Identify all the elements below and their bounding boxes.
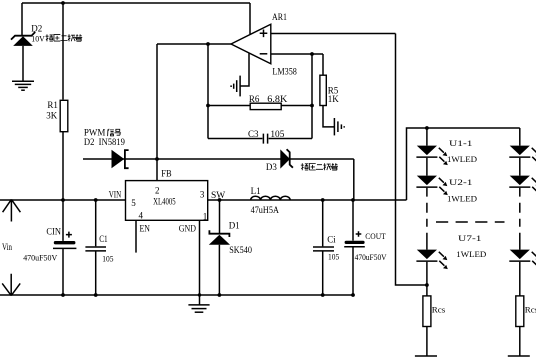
ground (tape) left of op-amp [231, 76, 240, 97]
wire top rail [22, 2, 250, 4]
svg-text:105: 105 [270, 129, 285, 139]
node D1 tap [218, 198, 222, 202]
svg-text:D1: D1 [229, 220, 240, 230]
svg-text:SK540: SK540 [229, 245, 252, 255]
svg-text:1WLED: 1WLED [456, 249, 486, 259]
node R6 right [310, 104, 314, 108]
ground (tape) right of R5 [334, 118, 344, 135]
svg-text:L1: L1 [251, 186, 261, 196]
capacitor CIN 470uF50V [23, 200, 76, 295]
wire [426, 262, 428, 296]
wire PWM/D3 row [83, 158, 354, 160]
wire current-sense line from op-amp + input [396, 34, 427, 286]
LED U2-1 [416, 176, 447, 196]
diode D2 IN5819 [112, 150, 129, 168]
svg-text:XL4005: XL4005 [153, 196, 176, 206]
svg-text:10V: 10V [31, 34, 45, 44]
node sense/Rcs junction [425, 283, 429, 287]
label 10V stabilivolt fake hanzi [46, 34, 83, 41]
node left string tap [425, 126, 429, 130]
node output/R6 junction [206, 42, 210, 46]
svg-text:6.8K: 6.8K [267, 94, 288, 104]
wire R6/C3 right vertical [311, 54, 313, 139]
capacitor Ci 105 [313, 200, 339, 295]
node Ci bottom [321, 293, 325, 297]
svg-text:U1-1: U1-1 [449, 138, 473, 148]
zener diode D3 [266, 149, 338, 172]
svg-text:U7-1: U7-1 [458, 233, 482, 243]
svg-text:Ci: Ci [327, 234, 336, 244]
wire SW output rail [208, 199, 407, 201]
resistor R5 1K [320, 54, 339, 127]
capacitor C1 105 [85, 200, 113, 295]
terminal arrow Vin+ [3, 199, 21, 221]
resistor Rcs left [415, 296, 445, 356]
svg-text:D3: D3 [266, 162, 277, 172]
LED U7-1 [416, 250, 447, 270]
wire LED supply: left edge and top bus [407, 128, 520, 200]
capacitor COUT 470uF50V [344, 200, 387, 295]
svg-text:LM358: LM358 [272, 68, 297, 78]
svg-text:VIN: VIN [109, 190, 122, 200]
terminal arrow Vin- [2, 274, 20, 296]
node C1 tap [94, 198, 98, 202]
svg-text:R6: R6 [249, 94, 260, 104]
wire left string with dashed continuation [426, 188, 428, 250]
node minus-input junction [310, 52, 314, 56]
node GND pin bottom [198, 293, 201, 296]
node R1-top junction [61, 1, 65, 5]
wire right string upper [519, 128, 521, 146]
op-amp AR1 LM358 [231, 12, 297, 78]
svg-text:EN: EN [140, 225, 151, 235]
svg-text:470uF50V: 470uF50V [355, 252, 388, 262]
svg-text:CIN: CIN [46, 227, 61, 237]
svg-text:2: 2 [155, 185, 160, 195]
svg-text:4: 4 [139, 211, 144, 221]
wire C3 row [208, 138, 312, 140]
svg-text:FB: FB [161, 168, 171, 178]
capacitor C3 105 [248, 129, 285, 144]
pin EN label and stub [135, 220, 137, 252]
svg-text:C1: C1 [99, 234, 108, 244]
wire non-inverting input row [271, 33, 396, 35]
svg-text:C3: C3 [248, 129, 259, 139]
svg-text:COUT: COUT [365, 231, 386, 241]
svg-text:47uH5A: 47uH5A [251, 205, 280, 215]
resistor R6 6.8K [249, 94, 288, 110]
svg-text:3K: 3K [46, 110, 58, 120]
pin GND label and stub [199, 220, 201, 295]
svg-text:R1: R1 [47, 100, 58, 110]
wire zener drop [21, 3, 23, 35]
wire right string with dashed continuation [519, 188, 521, 250]
inductor L1 47uH5A [251, 186, 291, 215]
node COUT bottom [351, 293, 355, 297]
svg-text:3: 3 [200, 189, 205, 199]
zener diode D2 10V [11, 23, 46, 46]
node C1 bottom [94, 293, 98, 297]
svg-text:Rcs: Rcs [525, 305, 536, 315]
node COUT/D3 tap [351, 198, 355, 202]
node Ci tap [321, 198, 325, 202]
wire inverting input row [271, 53, 323, 55]
node CIN tap [61, 198, 65, 202]
svg-text:1: 1 [203, 212, 208, 222]
wire [426, 158, 428, 176]
LED right bottom [509, 250, 536, 270]
wire [519, 158, 521, 176]
LED U1-1 [416, 146, 447, 166]
wire op-amp V- stub to ground [240, 54, 249, 87]
wire op-amp V+ stub [249, 3, 251, 34]
diode D1 SK540 [209, 200, 253, 295]
svg-text:D2 IN5819: D2 IN5819 [84, 137, 125, 147]
wire R6 row [208, 105, 312, 107]
label PWM signal [84, 128, 125, 147]
svg-text:AR1: AR1 [272, 12, 287, 22]
ground (earth) below D2 [12, 81, 34, 90]
ground (earth) at bottom rail [188, 295, 209, 312]
svg-text:1WLED: 1WLED [447, 154, 477, 164]
svg-text:GND: GND [179, 224, 196, 234]
wire [519, 262, 521, 296]
node R6 left [206, 104, 210, 108]
node D1 bottom [218, 293, 222, 297]
wire D3 drop to output [353, 159, 355, 200]
svg-text:D2: D2 [31, 23, 42, 33]
LED right second [509, 176, 536, 196]
svg-text:Rcs: Rcs [432, 305, 446, 315]
wire left string upper [426, 128, 428, 146]
svg-text:1WLED: 1WLED [447, 193, 477, 203]
wire FB vertical [156, 44, 158, 181]
svg-text:1K: 1K [328, 94, 340, 104]
wire R6 branch vertical [207, 44, 209, 139]
node CIN bottom [61, 293, 65, 297]
resistor Rcs right [508, 296, 536, 356]
svg-text:105: 105 [328, 251, 339, 261]
wire op-amp output row [157, 43, 231, 45]
wire zener to ground [22, 46, 24, 81]
svg-text:U2-1: U2-1 [449, 177, 473, 187]
node FB junction on PWM row [155, 157, 159, 161]
resistor R1 3K [46, 3, 68, 200]
LED right top [509, 146, 536, 166]
dashed line LED array boundary [436, 221, 505, 223]
svg-text:SW: SW [211, 190, 226, 200]
svg-text:105: 105 [102, 253, 113, 263]
op-amp U1 XL4005 body [126, 181, 208, 222]
wire bottom rail [0, 294, 353, 296]
svg-text:Vin: Vin [2, 242, 12, 252]
wire input rail [0, 199, 126, 201]
svg-text:470uF50V: 470uF50V [23, 253, 58, 263]
svg-text:5: 5 [131, 198, 136, 208]
